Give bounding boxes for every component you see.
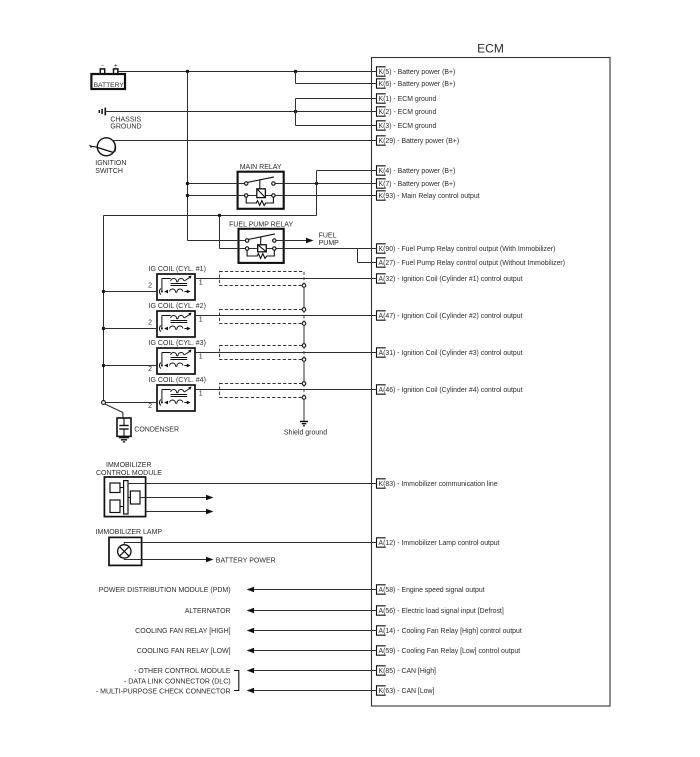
svg-text:2: 2 bbox=[148, 320, 152, 327]
svg-text:K(90) - Fuel Pump Relay contro: K(90) - Fuel Pump Relay control output (… bbox=[379, 246, 556, 253]
svg-text:- MULTI-PURPOSE CHECK CONNECTO: - MULTI-PURPOSE CHECK CONNECTOR bbox=[96, 689, 231, 696]
svg-text:Shield ground: Shield ground bbox=[284, 429, 327, 436]
svg-text:K(85) - CAN [High]: K(85) - CAN [High] bbox=[379, 668, 437, 675]
svg-text:1: 1 bbox=[199, 280, 203, 287]
svg-text:A(56) - Electric load signal i: A(56) - Electric load signal input [Defr… bbox=[379, 608, 504, 615]
svg-text:1: 1 bbox=[199, 391, 203, 398]
svg-text:FUEL: FUEL bbox=[319, 232, 337, 239]
svg-text:- DATA LINK CONNECTOR (DLC): - DATA LINK CONNECTOR (DLC) bbox=[124, 678, 231, 685]
svg-text:K(29) - Battery power (B+): K(29) - Battery power (B+) bbox=[379, 138, 460, 145]
svg-text:K(6) - Battery power (B+): K(6) - Battery power (B+) bbox=[379, 81, 456, 88]
svg-text:1: 1 bbox=[199, 354, 203, 361]
svg-text:2: 2 bbox=[148, 403, 152, 410]
svg-text:A(58) - Engine speed signal ou: A(58) - Engine speed signal output bbox=[379, 587, 485, 594]
svg-text:A(59) - Cooling Fan Relay [Low: A(59) - Cooling Fan Relay [Low] control … bbox=[379, 648, 521, 655]
svg-text:MAIN RELAY: MAIN RELAY bbox=[240, 164, 282, 171]
svg-text:GROUND: GROUND bbox=[110, 124, 141, 131]
svg-text:A(32) - Ignition Coil (Cylinde: A(32) - Ignition Coil (Cylinder #1) cont… bbox=[379, 276, 523, 283]
svg-text:IGNITION: IGNITION bbox=[95, 160, 126, 167]
svg-text:BATTERY: BATTERY bbox=[94, 82, 125, 89]
svg-text:ECM: ECM bbox=[477, 42, 504, 56]
svg-text:ALTERNATOR: ALTERNATOR bbox=[185, 608, 231, 615]
svg-text:COOLING FAN RELAY [HIGH]: COOLING FAN RELAY [HIGH] bbox=[135, 628, 230, 635]
svg-text:A(31) - Ignition Coil (Cylinde: A(31) - Ignition Coil (Cylinder #3) cont… bbox=[379, 350, 523, 357]
svg-text:2: 2 bbox=[148, 366, 152, 373]
svg-text:K(83) - Immobilizer communicat: K(83) - Immobilizer communication line bbox=[379, 481, 498, 488]
svg-text:CONDENSER: CONDENSER bbox=[134, 426, 179, 433]
svg-text:A(46) - Ignition Coil (Cylinde: A(46) - Ignition Coil (Cylinder #4) cont… bbox=[379, 387, 523, 394]
svg-text:K(4) - Battery power (B+): K(4) - Battery power (B+) bbox=[379, 168, 456, 175]
svg-text:K(2) - ECM ground: K(2) - ECM ground bbox=[379, 109, 437, 116]
svg-text:IG COIL (CYL. #4): IG COIL (CYL. #4) bbox=[149, 377, 206, 384]
svg-text:K(5) - Battery power (B+): K(5) - Battery power (B+) bbox=[379, 69, 456, 76]
svg-text:+: + bbox=[114, 63, 118, 70]
svg-text:1: 1 bbox=[199, 317, 203, 324]
svg-text:CHASSIS: CHASSIS bbox=[110, 116, 141, 123]
svg-text:K(63) - CAN [Low]: K(63) - CAN [Low] bbox=[379, 688, 435, 695]
svg-text:FUEL PUMP RELAY: FUEL PUMP RELAY bbox=[229, 222, 293, 229]
svg-text:IG COIL (CYL. #3): IG COIL (CYL. #3) bbox=[149, 340, 206, 347]
svg-text:K(7) - Battery power (B+): K(7) - Battery power (B+) bbox=[379, 181, 456, 188]
svg-text:SWITCH: SWITCH bbox=[95, 168, 123, 175]
svg-text:BATTERY POWER: BATTERY POWER bbox=[216, 557, 276, 564]
svg-text:A(14) - Cooling Fan Relay [Hig: A(14) - Cooling Fan Relay [High] control… bbox=[379, 628, 522, 635]
svg-text:POWER DISTRIBUTION MODULE (PDM: POWER DISTRIBUTION MODULE (PDM) bbox=[99, 587, 231, 594]
svg-text:A(12) - Immobilizer Lamp contr: A(12) - Immobilizer Lamp control output bbox=[379, 540, 500, 547]
svg-text:K(3) - ECM ground: K(3) - ECM ground bbox=[379, 123, 437, 130]
svg-text:A(27) - Fuel Pump Relay contro: A(27) - Fuel Pump Relay control output (… bbox=[379, 260, 566, 267]
svg-text:K(93) - Main Relay control out: K(93) - Main Relay control output bbox=[379, 193, 480, 200]
svg-text:PUMP: PUMP bbox=[319, 240, 340, 247]
svg-text:IMMOBILIZER LAMP: IMMOBILIZER LAMP bbox=[96, 529, 163, 536]
svg-text:IG COIL (CYL. #1): IG COIL (CYL. #1) bbox=[149, 266, 206, 273]
svg-text:IMMOBILIZER: IMMOBILIZER bbox=[106, 462, 152, 469]
svg-text:- OTHER CONTROL MODULE: - OTHER CONTROL MODULE bbox=[134, 668, 231, 675]
svg-text:IG COIL (CYL. #2): IG COIL (CYL. #2) bbox=[149, 303, 206, 310]
svg-text:COOLING FAN RELAY [LOW]: COOLING FAN RELAY [LOW] bbox=[137, 648, 231, 655]
svg-text:2: 2 bbox=[148, 283, 152, 290]
svg-text:K(1) - ECM ground: K(1) - ECM ground bbox=[379, 96, 437, 103]
svg-text:A(47) - Ignition Coil (Cylinde: A(47) - Ignition Coil (Cylinder #2) cont… bbox=[379, 313, 523, 320]
